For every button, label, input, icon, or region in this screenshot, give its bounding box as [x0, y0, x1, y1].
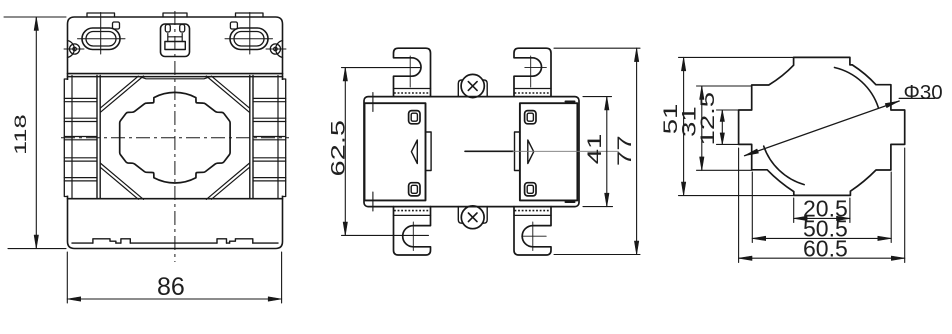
right housing triangle — [528, 140, 534, 164]
center connector slot right — [180, 25, 185, 33]
top-left hook cross — [409, 56, 411, 87]
bottom-left hook — [394, 207, 431, 255]
top-left hook base line — [394, 88, 431, 90]
left terminal oval outer — [82, 28, 120, 50]
left terminal crosshair — [78, 13, 126, 55]
dimension 50.5 — [752, 172, 891, 243]
bottom rail separator — [68, 198, 283, 200]
bottom-left hook cross — [412, 222, 414, 251]
hole circle arc bottom-left — [764, 146, 805, 185]
right housing — [520, 103, 578, 200]
top-right hook dotted strip — [515, 92, 551, 94]
center connector inner rect — [165, 42, 185, 50]
top-left hook dotted strip — [394, 92, 430, 94]
bottom screw bracket — [458, 207, 487, 224]
left terminal small square — [113, 22, 120, 29]
left housing triangle — [411, 140, 417, 164]
center connector inner lines — [168, 34, 182, 42]
dimension 41 — [583, 97, 613, 207]
brace bottom-right — [206, 163, 249, 199]
right housing corner tick top — [566, 101, 575, 103]
right terminal oval outer — [230, 28, 268, 50]
right inner wall lines — [277, 76, 279, 199]
dimension 51 — [679, 57, 794, 195]
svg-text:62.5: 62.5 — [328, 120, 349, 177]
bottom inner line — [72, 242, 278, 244]
right fin block outer edge — [283, 79, 286, 197]
leader line Phi30 — [745, 101, 900, 156]
bottom clip tab wide-right — [230, 239, 253, 243]
left fin block outer edge — [64, 79, 67, 197]
left terminal oval inner — [86, 32, 116, 47]
top edge bump left — [87, 13, 115, 17]
bottom clip tab narrow-left — [121, 239, 130, 243]
bottom clip tab wide-left — [93, 239, 116, 243]
central window castellated — [120, 92, 230, 183]
left housing clip top — [409, 111, 420, 124]
brace bottom-left — [100, 163, 143, 199]
dimension 60.5 — [739, 148, 905, 263]
svg-text:Φ30: Φ30 — [904, 81, 943, 104]
right housing clip top — [525, 111, 536, 124]
top screw bracket — [458, 80, 487, 97]
top-right hook base line — [514, 88, 551, 90]
left housing — [365, 103, 426, 200]
right fin rungs — [253, 98, 286, 180]
brace top-right — [206, 76, 249, 112]
bottom-right hook cross — [522, 222, 546, 251]
bottom clip tab narrow-right — [217, 239, 227, 243]
centerline vertical — [174, 11, 176, 262]
right housing corner tick bottom — [566, 201, 575, 203]
right housing clip bottom — [525, 183, 536, 196]
left side screw — [70, 44, 80, 54]
dimension 62.5 — [342, 68, 429, 236]
housing centerline — [465, 150, 513, 152]
bottom-right hook dotted strip — [515, 210, 551, 212]
dimension 77 — [554, 48, 640, 254]
center connector body — [161, 24, 190, 57]
svg-text:12.5: 12.5 — [698, 92, 719, 146]
top-right hook — [514, 48, 551, 96]
top edge bump center — [163, 13, 187, 17]
brace top-left — [100, 76, 143, 112]
terminal zone separator — [68, 73, 283, 75]
center connector slot left — [165, 25, 170, 33]
right housing side tab — [515, 132, 520, 171]
bottom screw — [461, 206, 484, 229]
main body — [364, 97, 579, 207]
leader tail — [899, 97, 934, 99]
dimension 31 — [697, 86, 753, 170]
right terminal oval inner — [234, 32, 264, 47]
top-left hook — [394, 48, 431, 96]
window outline — [739, 57, 905, 195]
left housing side tab — [426, 132, 432, 171]
right side screw — [270, 44, 280, 54]
left side screw boss arc — [68, 41, 75, 58]
dimension 86 — [67, 252, 281, 303]
left inner wall lines — [71, 76, 73, 199]
right side screw boss arc — [276, 41, 283, 58]
svg-text:86: 86 — [157, 273, 185, 301]
bottom-right hook — [514, 207, 551, 255]
dimension 118 — [4, 17, 66, 249]
left fin rungs — [64, 98, 97, 180]
top-right hook cross — [525, 56, 547, 87]
top edge bump right — [236, 13, 264, 17]
bottom-left hook base line — [394, 214, 431, 216]
hole circle arc top-right — [835, 68, 879, 108]
svg-text:60.5: 60.5 — [803, 236, 848, 262]
left housing corner cross top — [366, 93, 380, 112]
left housing clip bottom — [409, 183, 420, 196]
svg-text:41: 41 — [585, 134, 606, 165]
centerline horizontal — [61, 137, 289, 139]
svg-text:118: 118 — [10, 114, 30, 155]
body outer case — [68, 17, 283, 249]
svg-text:77: 77 — [615, 135, 636, 166]
dimension 20.5 — [794, 198, 850, 223]
dimension 12.5 — [717, 110, 752, 144]
bottom-right hook base line — [514, 214, 551, 216]
top screw — [461, 74, 484, 97]
fin zone body edge masks — [66, 80, 69, 196]
left housing corner cross bottom — [366, 192, 380, 211]
right terminal small square — [230, 22, 237, 29]
right terminal crosshair — [225, 13, 273, 55]
bottom-left hook dotted strip — [394, 210, 430, 212]
